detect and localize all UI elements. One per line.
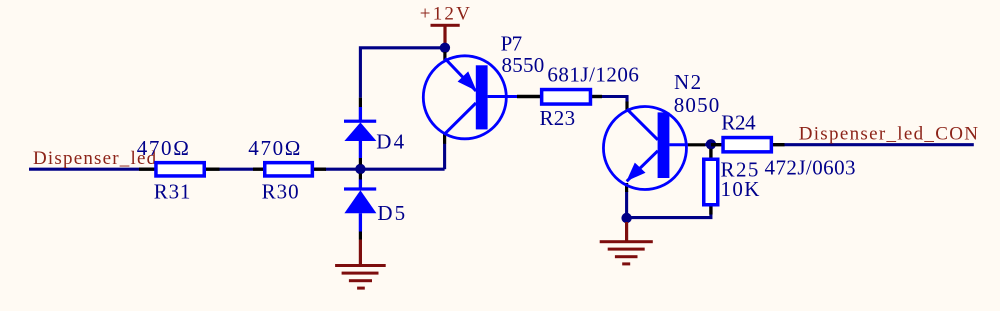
diode D4 [344, 98, 406, 165]
resistor R24 [711, 111, 856, 180]
svg-text:N2: N2 [674, 70, 703, 94]
node +12V junction [440, 43, 450, 53]
wire [360, 48, 445, 98]
svg-text:R31: R31 [154, 179, 191, 203]
resistor R23 [517, 62, 639, 130]
node main-rail / D4 / D5 junction [355, 164, 365, 174]
ground (left, under D5) [335, 240, 386, 290]
resistor R31 [137, 136, 220, 203]
resistor R25 [704, 149, 761, 215]
wire [784, 143, 974, 146]
svg-text:R23: R23 [540, 106, 576, 130]
wire [219, 168, 253, 171]
resistor R30 [248, 136, 326, 203]
svg-text:R24: R24 [721, 111, 756, 135]
svg-text:8050: 8050 [674, 93, 721, 117]
transistor Q P7 (PNP 8550) [423, 32, 544, 144]
svg-text:D4: D4 [376, 130, 406, 154]
ground (right, under N2 emitter) [600, 222, 653, 265]
wire [29, 168, 139, 171]
wire [625, 191, 628, 219]
wire [705, 143, 711, 146]
svg-text:470Ω: 470Ω [137, 136, 191, 160]
svg-text:8550: 8550 [502, 53, 545, 77]
svg-text:R30: R30 [262, 179, 300, 203]
wire [325, 168, 445, 171]
svg-text:681J/1206: 681J/1206 [547, 62, 639, 86]
svg-text:472J/0603: 472J/0603 [765, 155, 856, 179]
node N2 base / R24 / R25 junction [706, 139, 716, 149]
svg-text:D5: D5 [377, 201, 407, 225]
wire [443, 144, 446, 170]
node N2 emitter / R25 / ground junction [621, 213, 631, 223]
transistor Q N2 (NPN 8050) [603, 70, 720, 192]
svg-text:10K: 10K [721, 177, 761, 201]
svg-text:470Ω: 470Ω [248, 136, 302, 160]
wire [627, 214, 711, 218]
power +12V [420, 4, 472, 48]
svg-text:+12V: +12V [420, 4, 472, 25]
diode D5 [344, 174, 407, 240]
wire [602, 97, 628, 103]
svg-text:Dispenser_led_CON: Dispenser_led_CON [799, 124, 980, 145]
